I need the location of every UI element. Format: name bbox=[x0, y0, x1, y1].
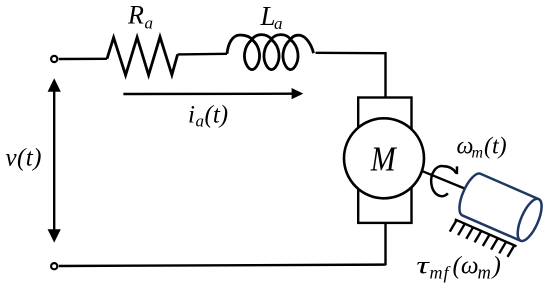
svg-text:m: m bbox=[478, 264, 491, 284]
hatching (friction ground) bbox=[450, 219, 517, 257]
svg-text:i: i bbox=[188, 102, 195, 129]
svg-text:a: a bbox=[274, 14, 283, 33]
resistor Ra bbox=[107, 37, 178, 75]
wire bbox=[59, 58, 107, 61]
voltage arrow v(t) bbox=[53, 90, 55, 232]
wire bbox=[384, 223, 386, 265]
wire bbox=[316, 52, 386, 55]
svg-text:a: a bbox=[145, 14, 154, 33]
wire bbox=[384, 52, 386, 98]
svg-text:m: m bbox=[472, 145, 484, 162]
rotation arrow bbox=[431, 166, 456, 196]
wire bbox=[178, 53, 227, 56]
inductor La bbox=[227, 35, 314, 70]
svg-text:): ) bbox=[491, 253, 501, 280]
wire (bottom) bbox=[59, 265, 386, 266]
terminal (bottom-left) bbox=[51, 263, 57, 269]
shaft bbox=[422, 171, 479, 194]
load cylinder bbox=[455, 170, 547, 244]
svg-text:M: M bbox=[370, 140, 397, 179]
terminal (top-left) bbox=[51, 56, 57, 62]
svg-text:(t): (t) bbox=[484, 134, 507, 160]
motor M bbox=[344, 118, 424, 198]
svg-text:τ: τ bbox=[416, 251, 430, 279]
svg-text:(ω: (ω bbox=[453, 253, 479, 280]
svg-text:mf: mf bbox=[430, 263, 452, 283]
svg-text:R: R bbox=[127, 1, 144, 30]
svg-text:a: a bbox=[196, 112, 205, 131]
svg-text:(t): (t) bbox=[205, 102, 229, 129]
current arrow ia(t) bbox=[123, 92, 293, 95]
motor frame bbox=[358, 98, 411, 223]
svg-text:v(t): v(t) bbox=[6, 145, 42, 172]
